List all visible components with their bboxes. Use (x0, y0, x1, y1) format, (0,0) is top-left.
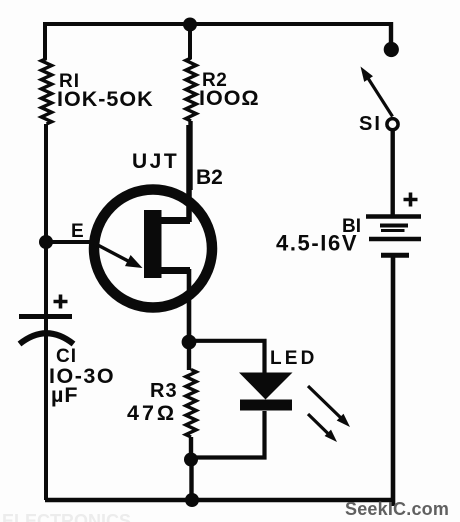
svg-text:SeekIC.com: SeekIC.com (345, 499, 449, 519)
wire left rail upper (to R1) (43, 22, 47, 59)
svg-text:LED: LED (270, 348, 318, 369)
wire LED branch top (189, 341, 265, 374)
svg-text:ELECTRONICS: ELECTRONICS (2, 511, 131, 522)
svg-text:SI: SI (359, 113, 382, 135)
svg-text:R3: R3 (150, 380, 178, 402)
capacitor C1 curved plate (20, 333, 74, 344)
wire R3 upper lead (187, 342, 191, 370)
switch S1 contact circle (387, 119, 398, 130)
capacitor C1 plus sign (54, 295, 68, 309)
wire LED branch bottom (191, 411, 265, 458)
svg-text:IOOΩ: IOOΩ (199, 86, 260, 110)
diode LED cathode bar (240, 400, 292, 411)
battery B1 plus sign (404, 193, 418, 207)
wire battery to bottom rail (391, 257, 396, 506)
wire right rail top (389, 22, 393, 45)
transistor UJT circle (94, 190, 212, 308)
wire switch to battery (391, 130, 395, 216)
node junction top of R3 (182, 335, 197, 350)
transistor base2 lead vertical (186, 125, 192, 222)
node junction top of R2 (183, 18, 197, 32)
svg-text:µF: µF (51, 383, 79, 407)
resistor R3 (186, 370, 196, 438)
node emitter junction (39, 235, 53, 249)
switch S1 arm (366, 75, 393, 117)
wire emitter horizontal (46, 240, 99, 244)
battery B1 plate long 1 (366, 214, 421, 219)
wire left rail lower (R1 to bottom) (44, 124, 48, 500)
resistor R1 (41, 59, 51, 125)
transistor base1 lead vertical (187, 269, 192, 344)
battery B1 plate long 2 (369, 237, 421, 242)
transistor base2 lead (160, 217, 190, 224)
node junction bottom rail (185, 493, 199, 507)
node junction bottom of R3 (184, 453, 198, 467)
node switch top terminal (384, 42, 399, 57)
transistor UJT base bar (144, 210, 162, 278)
LED light arrow 1 (308, 386, 341, 418)
wire R2 top lead (188, 24, 192, 59)
LED light arrow 2 (308, 414, 329, 435)
svg-text:B2: B2 (196, 166, 223, 189)
wire R3 lower lead (189, 437, 193, 460)
wire R3 junction to bottom rail (189, 459, 193, 500)
svg-text:47Ω: 47Ω (127, 401, 177, 425)
battery B1 plate short 2 (381, 253, 409, 258)
wire bottom rail (45, 498, 394, 503)
svg-text:IOK-5OK: IOK-5OK (57, 87, 154, 111)
svg-text:4.5-I6V: 4.5-I6V (276, 231, 358, 256)
transistor emitter arrow (93, 243, 129, 262)
transistor base1 lead (160, 267, 190, 274)
svg-text:E: E (71, 221, 84, 242)
capacitor C1 top plate (19, 314, 72, 319)
wire top rail (45, 22, 391, 26)
svg-text:UJT: UJT (132, 150, 179, 173)
battery B1 plate short pair (380, 224, 408, 228)
wire R2 to UJT base2 (188, 121, 192, 190)
diode LED triangle (239, 373, 293, 400)
resistor R2 (186, 58, 196, 121)
